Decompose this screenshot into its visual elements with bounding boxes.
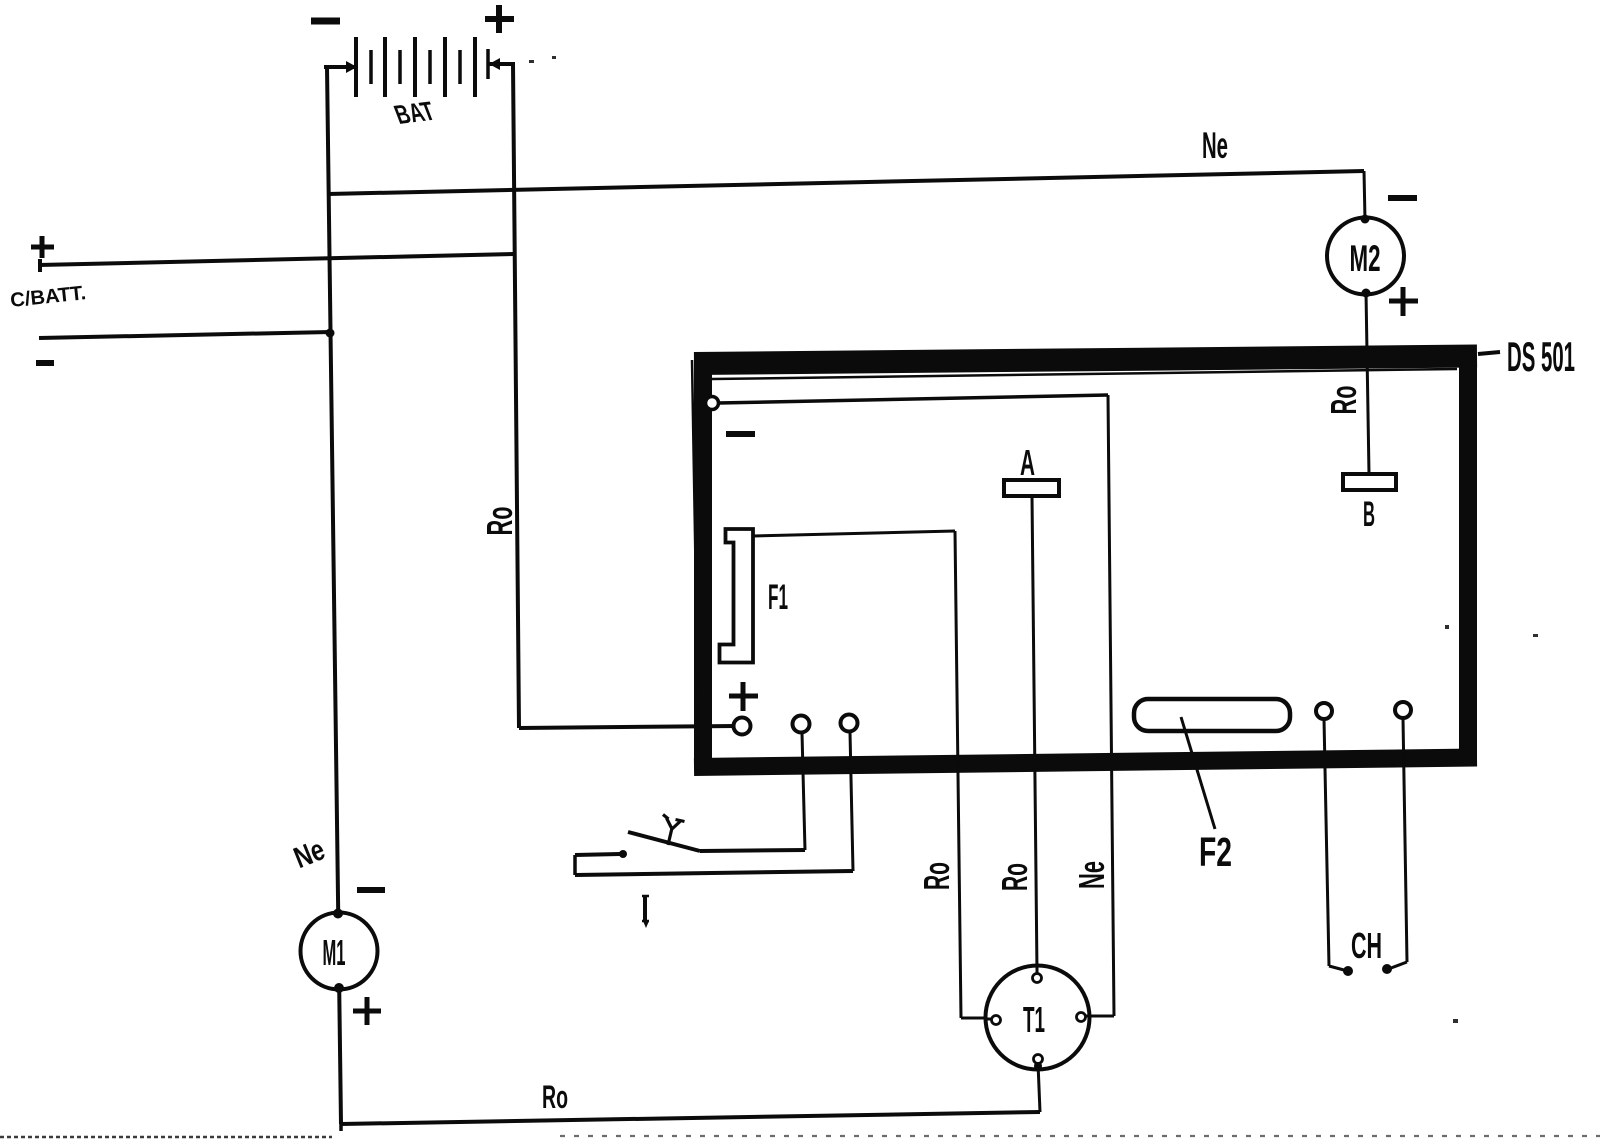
svg-text:Ro: Ro bbox=[994, 863, 1035, 891]
svg-text:F1: F1 bbox=[768, 578, 788, 617]
svg-text:Ro: Ro bbox=[1323, 386, 1364, 415]
svg-text:A: A bbox=[1020, 442, 1035, 483]
svg-text:Ro: Ro bbox=[542, 1079, 568, 1115]
svg-text:T1: T1 bbox=[1023, 999, 1045, 1040]
svg-text:F2: F2 bbox=[1199, 829, 1232, 875]
svg-text:B: B bbox=[1363, 495, 1375, 534]
svg-text:M2: M2 bbox=[1350, 238, 1381, 279]
svg-text:M1: M1 bbox=[323, 932, 346, 973]
svg-text:Ne: Ne bbox=[1202, 125, 1228, 166]
svg-text:Ne: Ne bbox=[1071, 861, 1112, 889]
svg-text:CH: CH bbox=[1351, 925, 1382, 966]
svg-text:Ro: Ro bbox=[479, 507, 520, 536]
svg-text:DS 501: DS 501 bbox=[1507, 333, 1575, 380]
svg-text:Ro: Ro bbox=[916, 862, 957, 890]
